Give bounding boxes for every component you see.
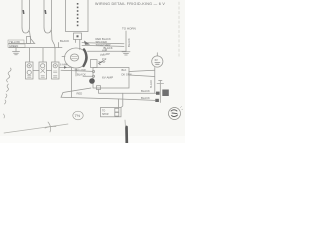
svg-text:6V AMP: 6V AMP (102, 76, 113, 80)
svg-text:BLACK: BLACK (60, 39, 69, 43)
wire: amp output to lamp (129, 70, 155, 71)
volume pot VR1 (91, 60, 98, 68)
svg-text:GREEN: GREEN (9, 44, 18, 48)
svg-text:BLACK: BLACK (127, 38, 131, 47)
wire label BLACK (to horn run) (104, 46, 113, 50)
wire: SW2 to SW3 (47, 70, 52, 72)
svg-text:WIRING DETAIL FRIGID-KING —: WIRING DETAIL FRIGID-KING — 6 V (95, 2, 165, 6)
wire label BLACK (amp input) (77, 73, 86, 77)
pencil mark bottom bar (125, 127, 128, 143)
svg-text:W PLT: W PLT (99, 61, 107, 64)
svg-text:SPKR: SPKR (102, 113, 109, 116)
label tag GREEN wire (8, 44, 25, 48)
wire label BLACK (lower battery lead) (141, 96, 150, 100)
svg-text:6 AMP: 6 AMP (60, 63, 68, 67)
label W PLT (99, 61, 107, 64)
paper background (0, 0, 185, 143)
wire: amp output 2 (129, 75, 155, 77)
svg-text:BLACK: BLACK (141, 96, 150, 100)
handwritten circled check (169, 107, 183, 120)
wire label RED (amp bottom) (77, 92, 83, 96)
wire label BLACK (vertical) (127, 38, 131, 47)
wire: red from amp blob (61, 88, 91, 97)
sleeve on loop L2 (45, 10, 47, 14)
label TO HORN (122, 26, 136, 30)
wire: drop to switch SW3 (54, 48, 56, 62)
wire: long run lower (61, 97, 155, 100)
motor M1 (62, 48, 88, 68)
wire label DK GRN (122, 72, 132, 76)
wire: yellow feed (9, 42, 35, 44)
pencil signature line (4, 122, 68, 133)
wire: SW3 output with arrow (59, 66, 72, 69)
ground GND1 (13, 48, 20, 55)
title text WIRING DETAIL (95, 2, 165, 6)
pilot lamp DS1 (152, 53, 163, 67)
wire: green feed (9, 47, 62, 49)
wire label BLACK (vertical lamp drop) (150, 79, 153, 88)
amplifier U1 (92, 68, 129, 89)
svg-text:6V: 6V (155, 58, 158, 62)
ground GND2 (122, 52, 130, 55)
switch SW3 (52, 62, 60, 79)
pencil mark small tail (124, 120, 126, 127)
wire label BLACK (upper battery lead) (141, 89, 150, 93)
wire: plug to horn line upper (82, 43, 124, 44)
wire: drop to switch SW1 (29, 48, 31, 62)
wire: plug to horn line lower (82, 45, 124, 46)
svg-text:DK GRN: DK GRN (122, 72, 132, 76)
svg-text:RED: RED (77, 92, 83, 96)
terminal strip TB1 (66, 0, 89, 32)
handwritten circled 75 (73, 111, 83, 120)
wire label BLK (amp output) (122, 68, 127, 72)
wire loop L1 (22, 0, 35, 43)
page edge dashed line (178, 2, 180, 58)
wire: drop to switch SW2 (42, 48, 44, 62)
svg-text:TO HORN: TO HORN (122, 26, 136, 30)
wire: yellow to amp (61, 70, 92, 71)
wire: SW1 to SW2 (33, 70, 39, 72)
wire: horn drop (125, 31, 127, 52)
annotation arrow to pot (99, 61, 105, 65)
wire: motor lead down b (75, 68, 77, 76)
amp bottom terminal (97, 86, 101, 90)
switch SW2 (39, 62, 47, 79)
wire: long run upper (99, 90, 157, 94)
battery connector J1 (155, 80, 169, 102)
wire: black to amp (83, 75, 92, 77)
wire: speaker lead 1 (118, 99, 120, 108)
handwritten margin note (rotated) (4, 68, 12, 118)
wire: motor lead down a (71, 67, 73, 97)
annotation ADD VOLUME POT (100, 48, 111, 62)
svg-text:BLACK: BLACK (150, 79, 153, 88)
wire legend text block (96, 37, 111, 47)
wire: black run to horn ground (88, 50, 127, 52)
svg-text:BLACK: BLACK (141, 89, 150, 93)
sleeve on loop L1 (23, 10, 25, 14)
svg-text:BLK: BLK (122, 68, 127, 72)
splice arrow (84, 41, 90, 45)
wire: stub corner at C (58, 43, 60, 48)
terminal blob on amp (89, 78, 95, 84)
wire label BLACK (left of plug) (60, 39, 69, 43)
wire: lamp drop to battery line (154, 68, 156, 94)
label 6 AMP at SW3 output (60, 63, 68, 67)
connector plug P1 (74, 33, 82, 50)
svg-text:7½: 7½ (75, 113, 81, 118)
speaker terminal LS1 (101, 108, 122, 117)
inline fuse F1 (27, 37, 31, 44)
label tag YELLOW wire (8, 40, 24, 44)
wire: speaker lead 2 (121, 93, 123, 107)
switch SW1 (26, 62, 34, 79)
wire loop L2 (44, 0, 55, 48)
wire label YELLOW (amp input) (75, 68, 87, 72)
